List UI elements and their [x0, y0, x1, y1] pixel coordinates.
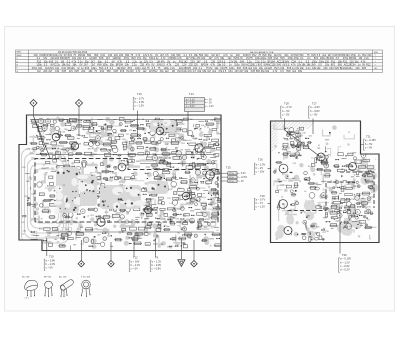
wire T10 — [46, 238, 48, 256]
svg-text:1k2: 1k2 — [292, 70, 297, 73]
svg-text:C57: C57 — [322, 232, 325, 234]
svg-text:33: 33 — [305, 138, 307, 140]
svg-text:L2: L2 — [316, 233, 318, 235]
svg-text:D33: D33 — [167, 247, 170, 249]
svg-text:D83: D83 — [307, 216, 310, 218]
svg-text:T91: T91 — [103, 129, 106, 131]
svg-text:C20: C20 — [22, 167, 25, 169]
svg-text:e b c: e b c — [25, 298, 29, 300]
svg-text:a ~ 10V: a ~ 10V — [131, 259, 140, 263]
svg-text:c ~ 0V: c ~ 0V — [131, 267, 139, 271]
component field left board — [30, 118, 223, 157]
dashed shield boundary left board — [35, 159, 218, 223]
svg-text:C18: C18 — [31, 193, 34, 195]
svg-text:100: 100 — [107, 235, 110, 237]
right board outline restroke — [271, 121, 380, 243]
svg-text:c ~ 0V: c ~ 0V — [46, 266, 54, 270]
svg-text:MRD: MRD — [17, 55, 22, 57]
svg-text:D66: D66 — [136, 161, 139, 163]
connector T15 — [221, 166, 247, 184]
svg-text:C34: C34 — [228, 70, 233, 73]
svg-text:T93: T93 — [325, 214, 328, 216]
svg-text:C39: C39 — [109, 149, 112, 151]
svg-text:68: 68 — [29, 177, 31, 179]
svg-text:L96: L96 — [23, 231, 26, 233]
svg-text:220: 220 — [323, 67, 328, 70]
svg-text:T10: T10 — [49, 255, 54, 259]
svg-text:L30: L30 — [106, 140, 109, 142]
svg-text:R93: R93 — [310, 226, 313, 228]
svg-text:D41: D41 — [363, 206, 366, 208]
svg-text:2k7: 2k7 — [48, 70, 53, 73]
svg-text:T89: T89 — [73, 244, 76, 246]
svg-text:1n: 1n — [164, 214, 166, 216]
svg-text:R60: R60 — [297, 154, 300, 156]
svg-text:R72: R72 — [93, 133, 96, 135]
svg-text:L98: L98 — [289, 131, 292, 133]
svg-text:L10: L10 — [190, 201, 193, 203]
svg-text:R17: R17 — [178, 137, 181, 139]
svg-text:C84: C84 — [160, 244, 163, 246]
svg-text:47: 47 — [297, 129, 299, 131]
svg-text:~ 3V: ~ 3V — [239, 181, 244, 183]
svg-text:L5: L5 — [354, 196, 356, 198]
svg-text:L66: L66 — [290, 138, 293, 140]
tiny reference labels left board — [21, 123, 219, 248]
svg-text:C2: C2 — [274, 170, 276, 172]
svg-text:L35: L35 — [284, 150, 287, 152]
svg-text:b ~ 5V: b ~ 5V — [282, 109, 290, 113]
svg-text:D57: D57 — [175, 147, 178, 149]
svg-text:4k7: 4k7 — [46, 168, 49, 170]
svg-text:T17: T17 — [312, 102, 317, 106]
svg-text:D86: D86 — [48, 233, 51, 235]
svg-text:L30: L30 — [90, 246, 93, 248]
svg-text:D12: D12 — [309, 135, 312, 137]
svg-text:T35: T35 — [309, 237, 312, 239]
svg-text:AC 128: AC 128 — [59, 276, 67, 279]
svg-text:b ~ 2.0V: b ~ 2.0V — [46, 262, 56, 266]
svg-text:c ~ 1.5V: c ~ 1.5V — [135, 104, 145, 108]
svg-text:220: 220 — [130, 70, 135, 73]
wire T20 — [339, 210, 341, 254]
transistor package drawing 4 — [81, 277, 91, 297]
wire T9 — [155, 238, 157, 257]
svg-text:L80: L80 — [54, 239, 57, 241]
svg-text:R39: R39 — [80, 227, 83, 229]
svg-text:L53: L53 — [346, 184, 349, 186]
svg-text:T20: T20 — [342, 253, 347, 257]
svg-text:R59: R59 — [285, 128, 288, 130]
svg-text:b ~ 2.9V: b ~ 2.9V — [135, 100, 145, 104]
svg-text:D4: D4 — [123, 150, 125, 152]
svg-text:b ~ 2.2V: b ~ 2.2V — [131, 263, 141, 267]
svg-text:T72: T72 — [172, 174, 175, 176]
test point diamond 4 — [108, 261, 114, 267]
svg-text:C37: C37 — [210, 120, 213, 122]
diagonal wire right board — [285, 130, 321, 157]
svg-text:6V8: 6V8 — [120, 70, 125, 73]
svg-text:R74: R74 — [62, 161, 65, 163]
svg-text:6V8: 6V8 — [362, 67, 367, 70]
svg-text:2.2: 2.2 — [297, 133, 300, 135]
test point diamond 2 — [76, 100, 83, 107]
svg-text:10: 10 — [296, 141, 298, 143]
transistor package drawing 1 (BC148) — [22, 277, 38, 300]
label T20 — [339, 253, 352, 272]
svg-text:T18: T18 — [284, 102, 289, 106]
wire from diamond 1 — [34, 107, 51, 159]
svg-text:D12: D12 — [178, 188, 181, 190]
svg-text:1k2: 1k2 — [165, 70, 170, 73]
wire T17 — [312, 119, 314, 135]
svg-text:5: 5 — [301, 146, 302, 148]
svg-text:T70: T70 — [167, 198, 170, 200]
svg-text:L85: L85 — [67, 148, 70, 150]
svg-text:D64: D64 — [98, 126, 101, 128]
svg-text:6V8: 6V8 — [251, 70, 256, 73]
svg-text:c ~ 0.6V: c ~ 0.6V — [186, 106, 195, 108]
svg-text:R37: R37 — [55, 230, 58, 232]
svg-text:C34: C34 — [329, 67, 334, 70]
svg-text:BC 148: BC 148 — [22, 277, 30, 279]
dashed shield boundary restroke — [35, 159, 218, 223]
svg-text:T15: T15 — [226, 166, 231, 170]
svg-text:T10: T10 — [325, 231, 328, 233]
svg-text:C47: C47 — [217, 134, 220, 136]
svg-text:R95: R95 — [205, 219, 208, 221]
svg-text:1n: 1n — [60, 238, 62, 240]
svg-text:T12: T12 — [133, 256, 138, 260]
svg-text:L96: L96 — [27, 148, 30, 150]
svg-text:c ~ 10V: c ~ 10V — [256, 170, 265, 174]
svg-text:R78: R78 — [105, 212, 108, 214]
svg-text:d ~ 0.2V: d ~ 0.2V — [340, 268, 350, 272]
right board dashed restroke — [288, 172, 375, 211]
svg-text:2 SC 458: 2 SC 458 — [81, 277, 91, 279]
svg-text:C12: C12 — [357, 170, 360, 172]
svg-text:R37: R37 — [275, 182, 278, 184]
svg-text:L91: L91 — [335, 166, 338, 168]
svg-text:6V8: 6V8 — [286, 70, 291, 73]
svg-text:1M: 1M — [37, 70, 40, 73]
svg-text:T4: T4 — [283, 138, 285, 140]
svg-text:~ 6.2V: ~ 6.2V — [239, 173, 246, 175]
svg-text:L83: L83 — [177, 209, 180, 211]
copper traces left board — [22, 149, 69, 243]
svg-text:D7: D7 — [349, 226, 351, 228]
svg-text:T21: T21 — [366, 135, 371, 139]
svg-text:a ~ 4.7V: a ~ 4.7V — [282, 105, 292, 109]
svg-text:L37: L37 — [165, 144, 168, 146]
svg-text:L6: L6 — [304, 191, 306, 193]
svg-text:a ~ 0.8V: a ~ 0.8V — [46, 258, 56, 262]
test point diamond 5 — [191, 261, 197, 267]
svg-text:c ~ 5V: c ~ 5V — [310, 112, 318, 116]
svg-text:8V2: 8V2 — [153, 70, 158, 73]
svg-text:L74: L74 — [129, 130, 132, 132]
svg-text:T60: T60 — [286, 154, 289, 156]
svg-text:T47: T47 — [312, 224, 315, 226]
label T10 — [44, 255, 55, 271]
svg-text:T44: T44 — [181, 228, 184, 230]
wire T13 — [137, 111, 139, 138]
svg-text:R59: R59 — [158, 229, 161, 231]
svg-text:2.2u: 2.2u — [306, 67, 311, 70]
svg-text:1n: 1n — [322, 157, 324, 159]
copper hatch right board — [266, 120, 314, 152]
svg-text:D33: D33 — [159, 157, 162, 159]
svg-text:R44: R44 — [94, 228, 97, 230]
transistor package drawing 3 — [59, 276, 74, 297]
wire T19 to right board — [268, 203, 281, 205]
svg-text:R34: R34 — [156, 175, 159, 177]
svg-text:T3: T3 — [63, 185, 65, 187]
copper background left board — [30, 118, 218, 250]
svg-text:D45: D45 — [146, 244, 149, 246]
svg-text:C27: C27 — [280, 185, 283, 187]
svg-text:b ~ 0.9V: b ~ 0.9V — [152, 263, 162, 267]
label T12 — [129, 256, 140, 272]
transistors right board — [279, 153, 357, 235]
svg-text:15: 15 — [299, 181, 301, 183]
svg-text:R12: R12 — [100, 70, 105, 73]
svg-text:L2: L2 — [87, 216, 89, 218]
wire to diamond 4 — [110, 242, 112, 261]
svg-text:L50: L50 — [97, 235, 100, 237]
wire from diamond 2 — [78, 107, 80, 137]
svg-text:C24: C24 — [158, 215, 161, 217]
label T16 — [254, 158, 265, 175]
svg-text:T63: T63 — [177, 133, 180, 135]
svg-text:a ~ 3.7V: a ~ 3.7V — [135, 97, 145, 101]
wire to diamond 3 — [80, 240, 82, 261]
table text — [17, 51, 379, 73]
svg-text:c ~ 1.2V: c ~ 1.2V — [256, 205, 266, 209]
svg-text:1n: 1n — [311, 157, 313, 159]
svg-text:T75: T75 — [293, 146, 296, 148]
svg-text:L89: L89 — [217, 123, 220, 125]
svg-text:L18: L18 — [152, 135, 155, 137]
svg-text:D75: D75 — [367, 206, 370, 208]
svg-text:R12: R12 — [366, 64, 371, 67]
svg-text:1M: 1M — [188, 70, 191, 73]
svg-text:D94: D94 — [214, 160, 217, 162]
svg-text:L95: L95 — [21, 222, 24, 224]
svg-text:560: 560 — [107, 70, 112, 73]
svg-text:R25: R25 — [39, 228, 42, 230]
test point diamond 3 — [78, 261, 84, 267]
svg-text:c ~ 0.8V: c ~ 0.8V — [152, 267, 162, 271]
connector T14 — [185, 92, 215, 111]
svg-text:T9: T9 — [155, 256, 159, 260]
ground triangle — [178, 260, 185, 267]
svg-text:T96: T96 — [351, 199, 354, 201]
svg-text:10: 10 — [282, 173, 284, 175]
transistor rings left board — [52, 127, 214, 226]
svg-text:C34: C34 — [55, 70, 60, 73]
svg-text:R77: R77 — [113, 167, 116, 169]
svg-text:T17: T17 — [367, 220, 370, 222]
svg-text:b ~ 1.4V: b ~ 1.4V — [186, 103, 195, 105]
svg-text:T94: T94 — [323, 206, 326, 208]
label T13 — [137, 92, 142, 96]
svg-text:T37: T37 — [126, 134, 129, 136]
svg-text:MRC: MRC — [17, 52, 22, 54]
svg-text:1n: 1n — [54, 128, 56, 130]
svg-text:T7: T7 — [152, 199, 154, 201]
svg-text:T13: T13 — [120, 218, 123, 220]
svg-text:D72: D72 — [31, 232, 34, 234]
svg-text:R27: R27 — [199, 178, 202, 180]
svg-text:a ~ 2.1V: a ~ 2.1V — [186, 99, 195, 101]
svg-text:L56: L56 — [331, 217, 334, 219]
svg-text:D5: D5 — [186, 191, 188, 193]
svg-text:R92: R92 — [204, 227, 207, 229]
svg-text:T62: T62 — [202, 174, 205, 176]
svg-text:6V8: 6V8 — [114, 70, 119, 73]
svg-text:1k2: 1k2 — [143, 70, 148, 73]
transistor package drawing 2 — [44, 277, 53, 297]
svg-text:100: 100 — [277, 179, 280, 181]
svg-text:T80: T80 — [317, 148, 320, 150]
svg-text:L72: L72 — [325, 216, 328, 218]
svg-text:a ~ 1.9V: a ~ 1.9V — [256, 162, 266, 166]
svg-text:b ~ 5.8V: b ~ 5.8V — [310, 109, 320, 113]
left board outline restroke — [19, 115, 221, 251]
svg-text:15: 15 — [281, 196, 283, 198]
svg-text:1k2: 1k2 — [212, 70, 217, 73]
svg-text:C45: C45 — [96, 148, 99, 150]
svg-text:D25: D25 — [190, 183, 193, 185]
svg-text:c ~ 5V: c ~ 5V — [282, 112, 290, 116]
svg-text:2.2: 2.2 — [164, 123, 167, 125]
svg-text:D70: D70 — [293, 188, 296, 190]
svg-text:~ 3V: ~ 3V — [207, 103, 212, 105]
svg-text:C81: C81 — [181, 143, 184, 145]
svg-text:D88: D88 — [26, 181, 29, 183]
IC blobs left board — [54, 118, 176, 215]
svg-text:D10: D10 — [201, 183, 204, 185]
svg-text:R30: R30 — [88, 149, 91, 151]
svg-text:68: 68 — [341, 169, 343, 171]
svg-text:5V6: 5V6 — [335, 67, 340, 70]
svg-text:~ 5V: ~ 5V — [207, 99, 212, 101]
svg-text:R50: R50 — [118, 193, 121, 195]
svg-text:68: 68 — [32, 206, 34, 208]
svg-text:C37: C37 — [97, 133, 100, 135]
svg-text:D37: D37 — [189, 179, 192, 181]
svg-text:a ~ 4.9V: a ~ 4.9V — [310, 105, 320, 109]
svg-text:T76: T76 — [31, 235, 34, 237]
svg-text:c ~ 5V: c ~ 5V — [365, 145, 373, 149]
svg-text:D37: D37 — [299, 136, 302, 138]
svg-text:L15: L15 — [201, 125, 204, 127]
wire T12 — [133, 236, 135, 257]
wire T16 to right board — [268, 168, 283, 170]
svg-text:b ~ 5V: b ~ 5V — [365, 142, 373, 146]
svg-text:D59: D59 — [122, 139, 125, 141]
svg-text:12V: 12V — [69, 70, 74, 73]
svg-text:33p: 33p — [160, 70, 165, 73]
svg-text:R4: R4 — [181, 149, 183, 151]
svg-text:BF 194: BF 194 — [44, 277, 52, 279]
svg-text:a ~ 1.2V: a ~ 1.2V — [152, 259, 162, 263]
svg-text:220: 220 — [355, 67, 360, 70]
svg-text:68: 68 — [287, 134, 289, 136]
wire to diamond 5 — [193, 240, 195, 261]
svg-text:L90: L90 — [302, 132, 305, 134]
svg-text:T37: T37 — [173, 187, 176, 189]
svg-text:T1: T1 — [177, 226, 179, 228]
svg-text:C56: C56 — [62, 132, 65, 134]
svg-text:68: 68 — [96, 167, 98, 169]
svg-text:R46: R46 — [120, 185, 123, 187]
svg-text:a ~ 0.15V: a ~ 0.15V — [365, 138, 376, 142]
svg-text:1M: 1M — [172, 70, 175, 73]
label T19 — [254, 194, 265, 210]
svg-text:12: 12 — [80, 232, 82, 234]
component field right board — [282, 127, 309, 156]
svg-text:L73: L73 — [170, 203, 173, 205]
svg-text:T64: T64 — [94, 154, 97, 156]
svg-text:T80: T80 — [302, 212, 305, 214]
wire T18 — [284, 119, 286, 131]
svg-text:220: 220 — [43, 70, 48, 73]
svg-text:a ~ 0.7V: a ~ 0.7V — [256, 198, 266, 202]
dashed boundary right board — [288, 172, 375, 211]
wire T14 — [187, 112, 189, 137]
label T18 — [281, 102, 292, 119]
svg-text:R96: R96 — [308, 232, 311, 234]
svg-text:100u: 100u — [347, 67, 353, 70]
svg-text:15: 15 — [63, 213, 65, 215]
svg-text:b ~ 7V: b ~ 7V — [256, 201, 264, 205]
T13 voltages — [133, 97, 144, 110]
svg-text:68: 68 — [296, 136, 298, 138]
svg-text:L83: L83 — [49, 200, 52, 202]
svg-text:b ~ 2V: b ~ 2V — [256, 166, 264, 170]
svg-text:T91: T91 — [177, 233, 180, 235]
svg-text:R23: R23 — [316, 227, 319, 229]
right PCB board outline — [271, 121, 380, 243]
svg-text:12V: 12V — [234, 70, 239, 73]
svg-text:G: G — [17, 71, 19, 73]
svg-text:T10: T10 — [31, 158, 34, 160]
svg-text:~ 0.4V: ~ 0.4V — [207, 106, 214, 108]
svg-text:C49: C49 — [194, 139, 197, 141]
svg-text:L54: L54 — [183, 140, 186, 142]
svg-text:D81: D81 — [292, 178, 295, 180]
svg-text:T16: T16 — [258, 158, 263, 162]
svg-text:D53: D53 — [211, 204, 214, 206]
svg-text:L34: L34 — [167, 150, 170, 152]
label T9 — [150, 256, 161, 272]
svg-text:33: 33 — [308, 166, 310, 168]
svg-text:T14: T14 — [189, 92, 194, 96]
svg-text:6V8: 6V8 — [62, 70, 67, 73]
svg-text:T13: T13 — [137, 92, 142, 96]
svg-text:c ~ 0.9V: c ~ 0.9V — [340, 264, 350, 268]
svg-text:4.7k: 4.7k — [136, 70, 141, 73]
svg-text:0.1: 0.1 — [22, 234, 25, 236]
svg-text:4.7k: 4.7k — [273, 70, 278, 73]
large pads right board — [275, 148, 378, 239]
svg-text:220: 220 — [81, 70, 86, 73]
bus wires left board — [30, 120, 216, 233]
test point diamond 1 — [30, 100, 37, 107]
svg-text:T11: T11 — [47, 235, 50, 237]
